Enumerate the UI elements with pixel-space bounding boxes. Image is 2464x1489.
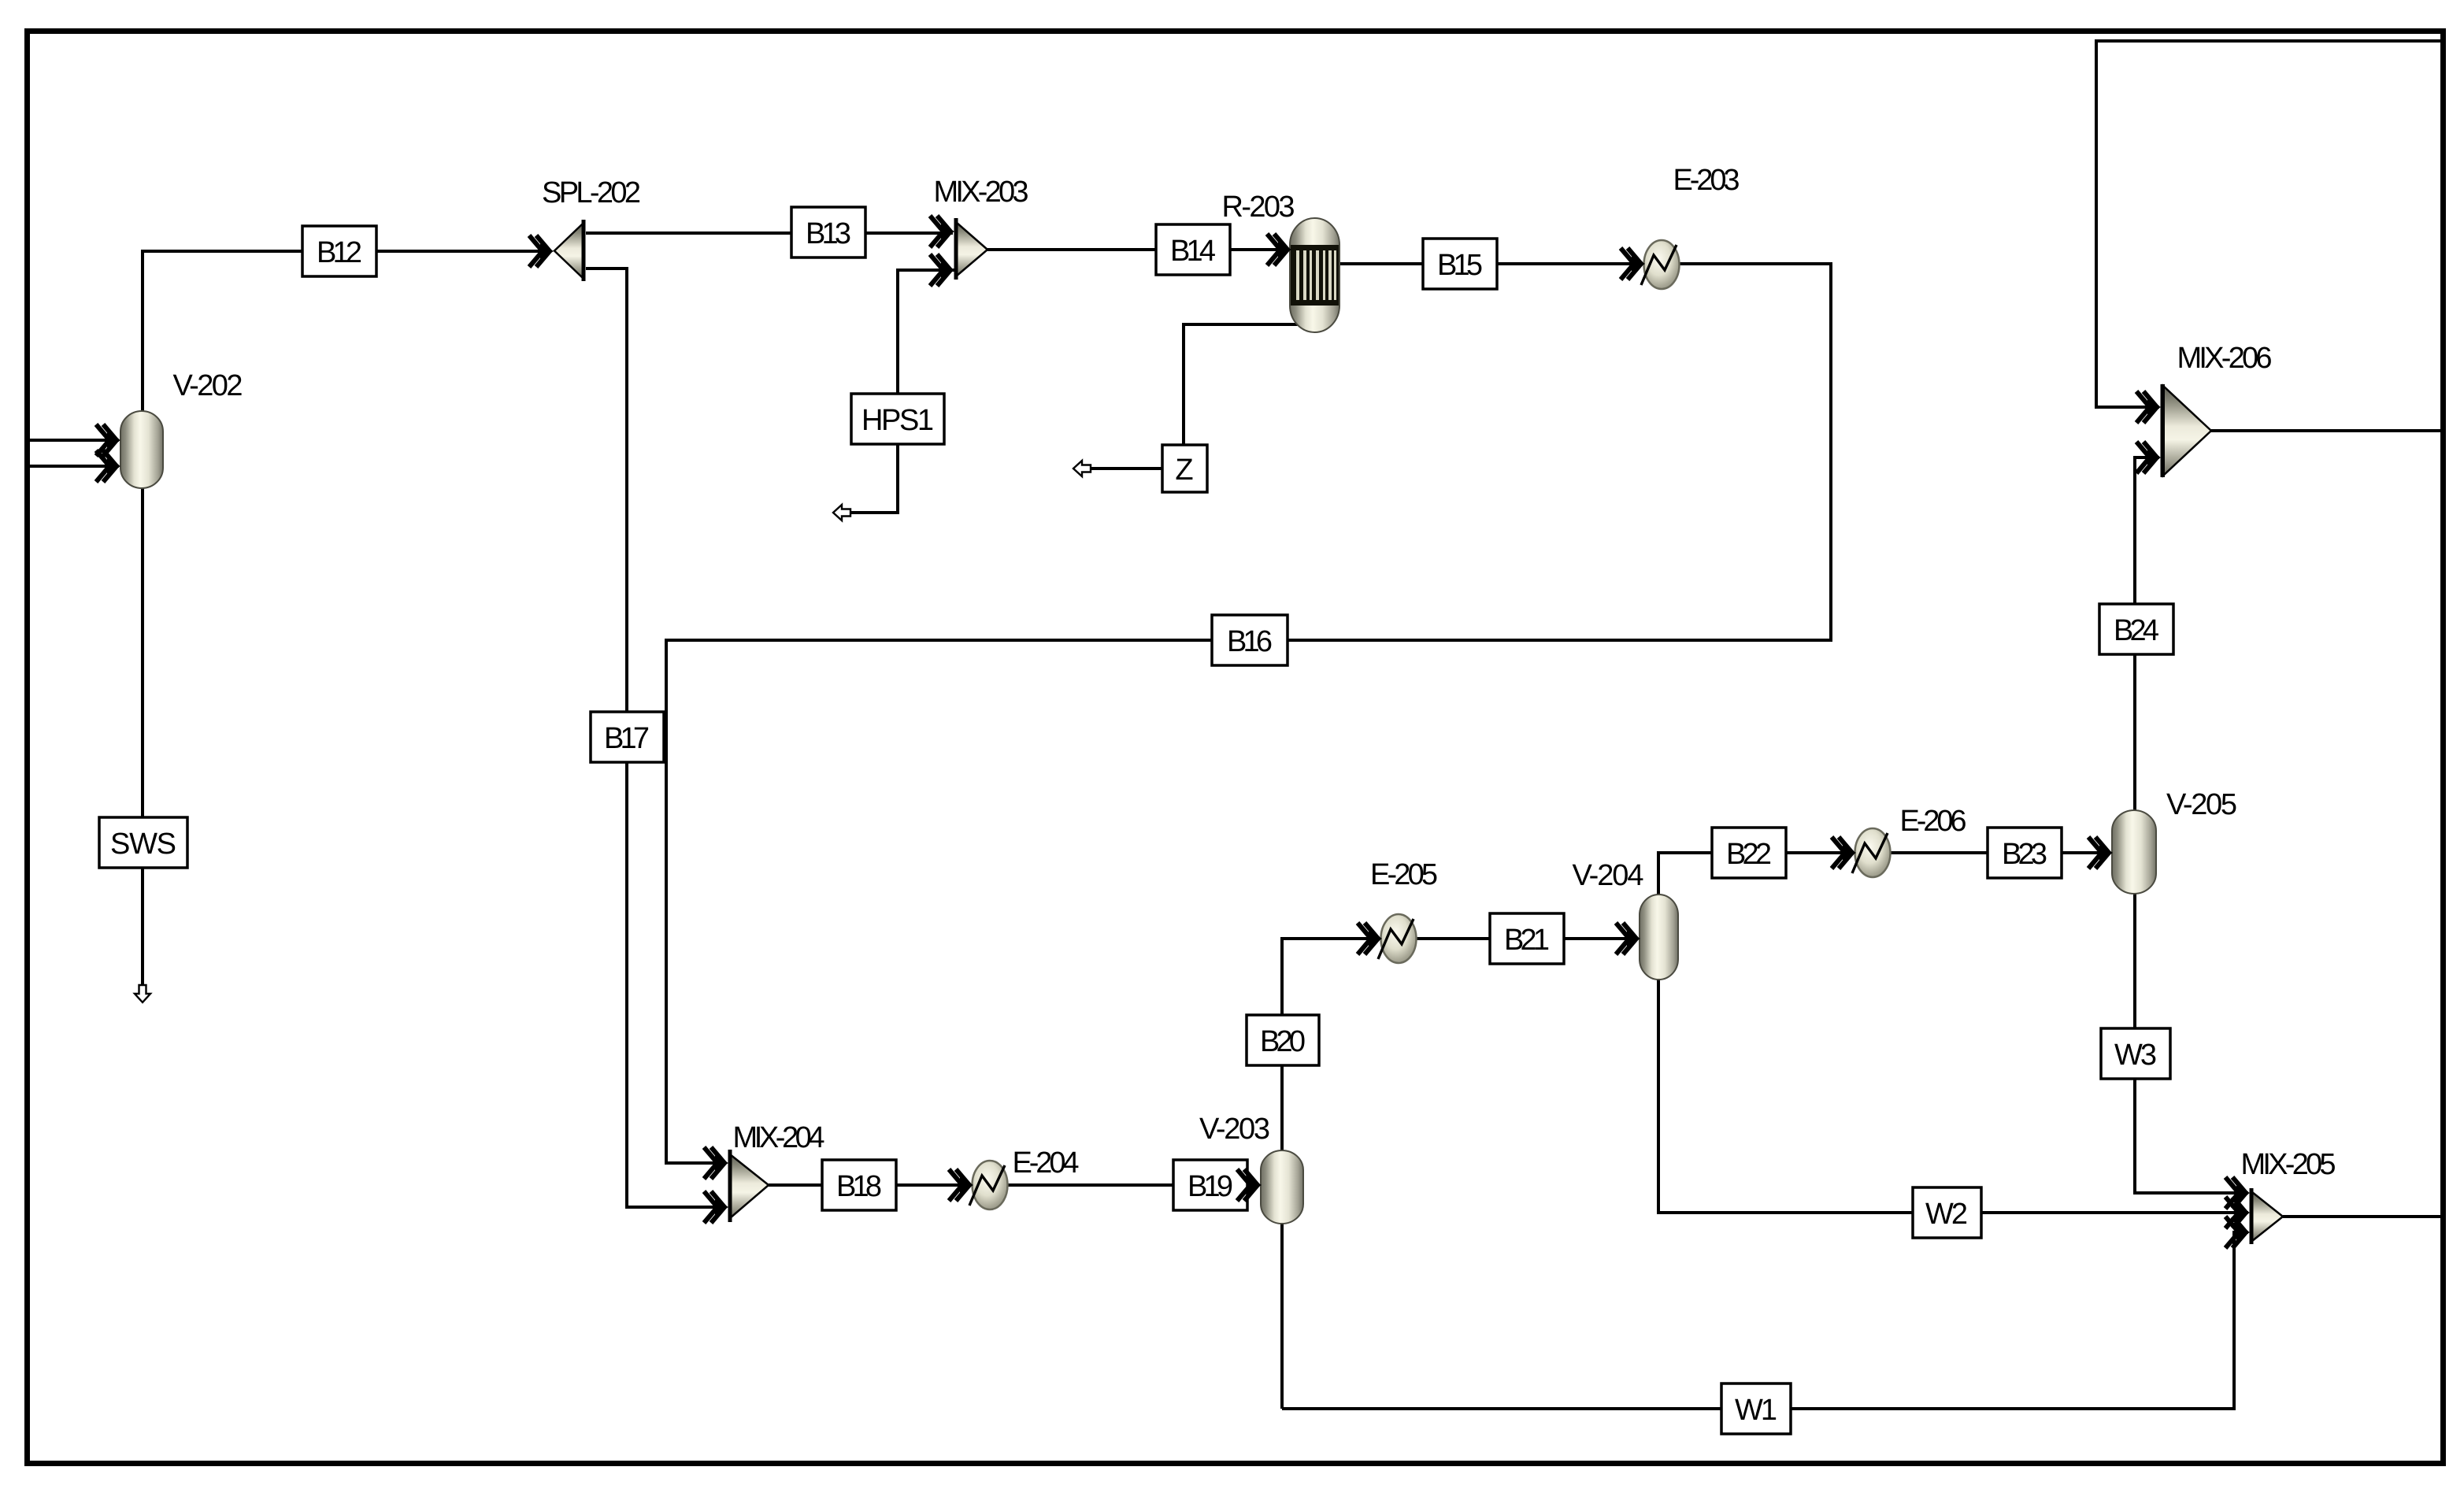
wire stream Z: R-203 bottom to Z box and open arrow	[1091, 324, 1299, 469]
arrow into E-203	[1621, 248, 1645, 280]
stream label box B19	[1173, 1160, 1247, 1210]
vessel V-203	[1261, 1150, 1303, 1224]
open arrow terminator HPS1 feed	[833, 505, 850, 520]
arrow into MIX-203 upper	[930, 216, 954, 247]
heat exchanger E-204	[969, 1161, 1008, 1209]
svg-text:V-203: V-203	[1199, 1113, 1270, 1146]
wire stream B21: E-205 to V-204	[1416, 937, 1638, 940]
arrow into MIX-206 upper	[2136, 391, 2161, 423]
svg-text:MIX-206: MIX-206	[2177, 342, 2273, 375]
svg-text:W2: W2	[1925, 1198, 1968, 1231]
arrow into MIX-204 lower	[704, 1191, 728, 1223]
stream label box B14	[1156, 224, 1230, 275]
arrow into V-204	[1616, 923, 1640, 954]
wire stream B12: V-202 top to SPL-202	[143, 251, 551, 411]
svg-text:E-203: E-203	[1673, 164, 1740, 197]
stream label box B16	[1212, 615, 1288, 665]
vessel V-204	[1640, 895, 1678, 980]
arrow into E-205	[1358, 923, 1382, 954]
wire MIX-205 outlet to right border	[2283, 1215, 2443, 1218]
stream label box B20	[1247, 1015, 1319, 1065]
stream label box Z	[1162, 445, 1207, 492]
svg-text:SPL-202: SPL-202	[542, 176, 641, 209]
stream label box B22	[1712, 828, 1786, 878]
svg-text:MIX-204: MIX-204	[733, 1121, 825, 1154]
mixer MIX-204	[728, 1150, 769, 1222]
svg-text:Z: Z	[1175, 454, 1193, 487]
svg-text:V-202: V-202	[173, 369, 243, 402]
arrow into MIX-206 lower	[2136, 442, 2161, 473]
arrow into V-202 inlet 1	[96, 424, 120, 456]
svg-text:E-204: E-204	[1013, 1146, 1080, 1180]
svg-text:V-205: V-205	[2166, 788, 2237, 821]
wire recycle loop: MIX-206 outlet around top to MIX-206 upper inlet	[2096, 41, 2443, 431]
svg-text:V-204: V-204	[1573, 859, 1644, 892]
arrow into MIX-205 third	[2225, 1217, 2250, 1248]
heat exchanger E-206	[1852, 828, 1891, 877]
stream label box B24	[2099, 604, 2173, 654]
wire feed1 into V-202	[30, 439, 119, 442]
arrow into MIX-203 lower	[930, 254, 954, 286]
stream label box B18	[822, 1160, 896, 1210]
svg-text:MIX-203: MIX-203	[934, 176, 1029, 209]
svg-text:B19: B19	[1188, 1170, 1233, 1203]
arrow into MIX-205 second	[2225, 1197, 2250, 1228]
arrow into E-204	[949, 1169, 973, 1201]
svg-text:MIX-205: MIX-205	[2241, 1148, 2336, 1181]
wire stream SWS: V-202 bottom to open arrow	[141, 488, 144, 986]
splitter SPL-202	[554, 220, 586, 281]
wire stream W1: V-203 bottom to MIX-205 third inlet	[1282, 1232, 2248, 1409]
stream label box W2	[1913, 1187, 1981, 1238]
arrow into V-203	[1237, 1169, 1262, 1201]
mixer MIX-206	[2161, 384, 2212, 477]
svg-text:SWS: SWS	[110, 828, 176, 861]
arrow into MIX-205 first	[2225, 1177, 2250, 1209]
svg-text:B22: B22	[1726, 838, 1772, 871]
reactor R-203	[1290, 218, 1339, 332]
wire stream B18: MIX-204 to E-204	[769, 1183, 971, 1187]
svg-text:R-203: R-203	[1222, 191, 1295, 224]
stream label box B17	[591, 712, 664, 762]
stream label box B15	[1423, 239, 1497, 289]
wire stream B24: V-205 top up to MIX-206 lower inlet	[2135, 457, 2159, 810]
stream label box B12	[302, 226, 376, 276]
stream label box W3	[2101, 1028, 2170, 1079]
svg-text:B24: B24	[2114, 614, 2159, 647]
stream label box SWS	[99, 817, 187, 868]
wire feed2 into V-202	[30, 465, 119, 468]
heat exchanger E-203	[1641, 240, 1680, 289]
svg-text:B15: B15	[1437, 249, 1483, 282]
mixer MIX-203	[954, 218, 988, 280]
svg-text:HPS1: HPS1	[861, 404, 934, 437]
wire stream HPS1: feed arrow up to MIX-203 lower inlet	[848, 270, 954, 513]
open arrow terminator SWS outlet	[135, 985, 150, 1002]
vessel V-205	[2112, 810, 2156, 894]
arrow into E-206	[1832, 837, 1856, 869]
arrow into V-205	[2088, 837, 2113, 869]
stream label box W1	[1721, 1383, 1791, 1434]
wire stream B17: SPL-202 to MIX-204 lower inlet	[586, 269, 726, 1207]
svg-text:B12: B12	[317, 236, 362, 269]
wire stream B13: SPL-202 to MIX-203	[586, 231, 953, 235]
open arrow terminator Z outlet	[1073, 461, 1091, 476]
stream label box B23	[1988, 828, 2062, 878]
arrow into V-202 inlet 2	[96, 450, 120, 482]
svg-text:B14: B14	[1170, 235, 1216, 268]
svg-text:B13: B13	[806, 217, 851, 250]
svg-text:B20: B20	[1260, 1025, 1306, 1058]
stream label box HPS1	[851, 394, 944, 444]
svg-text:B21: B21	[1504, 924, 1550, 957]
vessel V-202	[120, 411, 163, 488]
svg-text:E-206: E-206	[1900, 805, 1967, 838]
wire stream B20: V-203 top up to E-205	[1282, 939, 1380, 1409]
svg-text:W3: W3	[2114, 1039, 2157, 1072]
heat exchanger E-205	[1378, 914, 1417, 963]
wire stream B19: E-204 to V-203	[1007, 1183, 1259, 1187]
svg-text:E-205: E-205	[1370, 858, 1438, 891]
svg-text:B16: B16	[1227, 625, 1273, 658]
svg-text:B17: B17	[604, 722, 650, 755]
arrow into SPL-202	[529, 235, 554, 267]
wire stream B22: V-204 top to E-206	[1658, 853, 1854, 895]
stream label box B13	[791, 207, 865, 257]
wire stream B16: E-203 around to MIX-204 upper inlet	[666, 264, 1831, 1163]
wire stream B14: MIX-203 to R-203	[987, 248, 1288, 251]
wire stream W2: V-204 bottom to MIX-205 second inlet	[1658, 980, 2248, 1213]
mixer MIX-205	[2250, 1188, 2284, 1244]
stream label box B21	[1490, 913, 1564, 964]
svg-text:W1: W1	[1735, 1394, 1777, 1427]
wire stream W3: V-205 bottom down to MIX-205 first inlet	[2135, 894, 2248, 1193]
wire stream B15: R-203 to E-203	[1339, 262, 1643, 265]
wire stream B23: E-206 to V-205	[1890, 851, 2110, 854]
arrow into R-203	[1267, 234, 1291, 265]
svg-text:B23: B23	[2002, 838, 2047, 871]
arrow into MIX-204 upper	[704, 1147, 728, 1179]
svg-text:B18: B18	[836, 1170, 882, 1203]
